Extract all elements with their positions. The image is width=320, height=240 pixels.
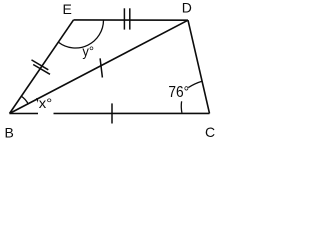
angle arc EBD at B: [21, 96, 29, 104]
tick on side BC: [111, 103, 113, 123]
side DC: [188, 20, 210, 113]
svg-text:y°: y°: [82, 43, 94, 59]
diagonal BD: [10, 20, 189, 113]
svg-text:D: D: [182, 0, 192, 15]
tick 1 on side ED: [123, 8, 125, 29]
label mask for x angle: [38, 101, 54, 117]
svg-text:C: C: [205, 124, 215, 140]
tick 2 on side ED: [129, 8, 131, 29]
angle arc x at B: [37, 98, 41, 112]
tick 1 on side BE: [32, 60, 49, 70]
side CB: [10, 112, 210, 114]
angle arc 76 at C lower segment: [180, 101, 183, 113]
angle arc 76 at C upper segment: [188, 81, 202, 87]
tick 2 on side BE: [33, 65, 50, 75]
svg-text:B: B: [5, 125, 14, 141]
angle arc y at E: [58, 20, 103, 48]
svg-text:x°: x°: [39, 95, 52, 111]
side BE: [10, 20, 74, 114]
svg-text:E: E: [63, 1, 72, 17]
side ED: [74, 19, 189, 21]
tick on diagonal BD: [100, 58, 102, 77]
svg-text:76°: 76°: [168, 84, 189, 101]
